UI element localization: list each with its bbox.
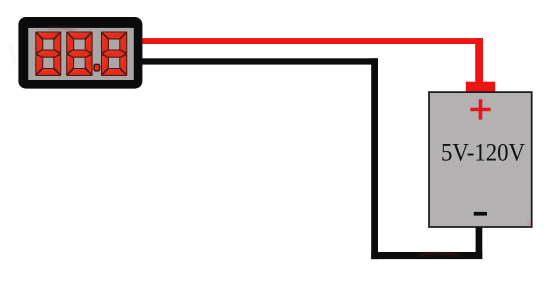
wire: red positive lead vertical down segment: [475, 38, 483, 84]
watermark smudge over panel top: [48, 27, 75, 30]
digit 1 (8): [36, 32, 61, 75]
voltmeter display gray panel: [28, 28, 134, 80]
battery plus sign: [470, 99, 490, 119]
voltmeter M1 black case: [18, 17, 142, 89]
wire: black negative lead up into battery minus terminal: [476, 226, 483, 259]
watermark smudge top-left: [10, 44, 16, 66]
watermark tick at box corner: [528, 221, 530, 226]
terminal: red positive terminal block on battery top: [466, 82, 495, 93]
battery B1 box 5V-120V: [429, 92, 532, 227]
watermark smudge near bottom wire: [420, 253, 458, 256]
wire: red positive lead from meter, horizontal run: [140, 38, 483, 44]
battery minus sign: [474, 212, 487, 216]
decimal point: [94, 64, 100, 71]
digit 2 (8): [67, 32, 92, 75]
wire: black negative lead from meter, horizontal run: [140, 58, 378, 64]
wire: black negative lead bottom horizontal run: [371, 252, 482, 259]
svg-text:5V-120V: 5V-120V: [441, 140, 525, 167]
digit 3 (8): [102, 32, 127, 75]
wire: black negative lead vertical down segment: [371, 58, 378, 259]
